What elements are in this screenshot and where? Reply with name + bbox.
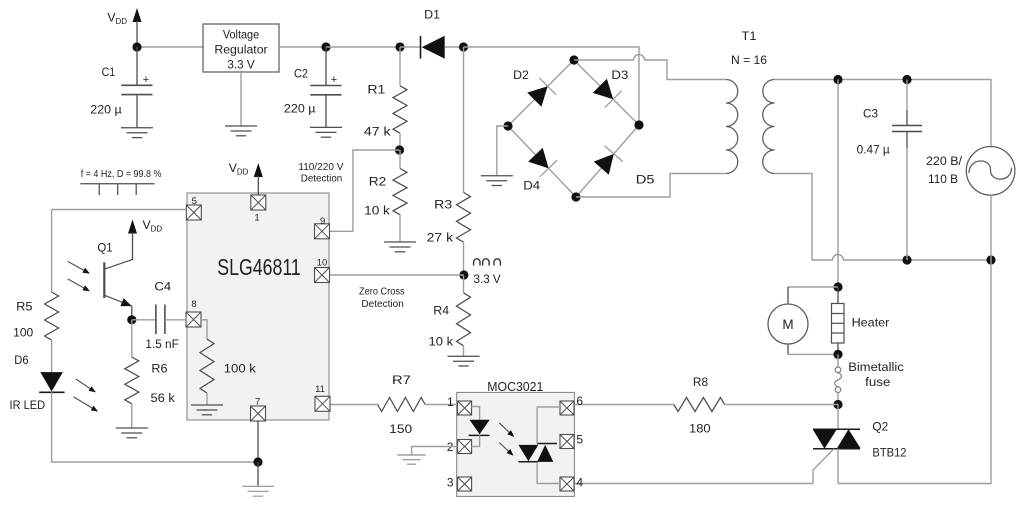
ground (R6) bbox=[116, 428, 148, 438]
svg-text:Heater: Heater bbox=[852, 315, 890, 329]
svg-text:8: 8 bbox=[191, 299, 196, 310]
wire (Q2 MT2 to AC return) bbox=[837, 449, 839, 484]
svg-text:SLG46811: SLG46811 bbox=[217, 254, 301, 280]
svg-text:D6: D6 bbox=[14, 353, 28, 367]
ground (bridge left node) bbox=[481, 176, 513, 186]
pin 1 (MOC) bbox=[447, 395, 472, 415]
wire (pin 5 net) bbox=[52, 209, 186, 211]
svg-text:C1: C1 bbox=[102, 65, 116, 79]
light arrow into Q1 bbox=[68, 261, 90, 273]
light arrow into Q1 bbox=[68, 279, 90, 291]
wire bbox=[837, 405, 839, 430]
svg-text:Voltage: Voltage bbox=[223, 27, 259, 41]
wire (bridge edge left-bottom) bbox=[508, 126, 576, 197]
svg-text:R1: R1 bbox=[367, 83, 385, 97]
node junction gate drive / fuse bbox=[833, 400, 842, 409]
label Zero Cross Detection bbox=[359, 286, 405, 310]
bimetallic fuse bbox=[835, 354, 904, 404]
svg-text:6: 6 bbox=[576, 394, 583, 408]
wire bbox=[165, 319, 186, 321]
svg-text:R7: R7 bbox=[392, 373, 411, 387]
wire bbox=[725, 404, 838, 406]
svg-text:47 k: 47 k bbox=[364, 125, 392, 139]
wire bbox=[326, 46, 400, 48]
svg-text:IR LED: IR LED bbox=[10, 398, 46, 412]
voltage regulator U3 3.3 V bbox=[203, 24, 279, 72]
triac Q2 bbox=[813, 420, 907, 460]
wire (bottom rail with hop) bbox=[812, 255, 991, 261]
wire (gate rail to MOC pin 4) bbox=[574, 483, 813, 485]
label T1 bbox=[742, 29, 757, 43]
svg-text:1: 1 bbox=[254, 213, 259, 224]
transformer T1 secondary winding bbox=[763, 80, 775, 174]
pin 4 (MOC) bbox=[560, 475, 583, 491]
node junction D1 / R3 / bridge bbox=[459, 42, 468, 51]
svg-text:R3: R3 bbox=[434, 198, 452, 212]
wire bbox=[136, 95, 138, 128]
svg-text:fuse: fuse bbox=[865, 375, 890, 389]
transistor Q1 (photo) bbox=[97, 241, 132, 307]
svg-text:100 k: 100 k bbox=[224, 362, 257, 376]
wire bbox=[131, 306, 133, 320]
wire bbox=[463, 47, 465, 192]
ground (internal 100k) bbox=[191, 405, 223, 415]
svg-text:9: 9 bbox=[320, 216, 325, 227]
wire bbox=[131, 404, 133, 428]
svg-text:3.3 V: 3.3 V bbox=[227, 57, 255, 71]
wire (top node to primary, hop) bbox=[574, 55, 726, 80]
svg-text:R8: R8 bbox=[693, 375, 708, 389]
pin 5 (U1) bbox=[186, 196, 201, 220]
wire (LED to MOC pin2) bbox=[472, 435, 480, 446]
svg-text:D5: D5 bbox=[636, 172, 655, 186]
wire (pin 10 zero-cross net) bbox=[330, 274, 464, 276]
heater element bbox=[832, 287, 890, 354]
power symbol VDD (top left) bbox=[107, 8, 141, 47]
svg-text:3: 3 bbox=[447, 476, 454, 490]
wire bbox=[400, 46, 421, 48]
diode D1 bbox=[421, 8, 445, 59]
wire bbox=[136, 47, 138, 85]
wire bbox=[137, 46, 203, 48]
ground (C1) bbox=[121, 128, 153, 138]
wire bbox=[240, 72, 242, 126]
svg-text:D2: D2 bbox=[513, 68, 529, 82]
svg-text:110/220 V: 110/220 V bbox=[298, 162, 343, 173]
wire bbox=[132, 319, 156, 321]
svg-text:BTB12: BTB12 bbox=[872, 446, 906, 460]
resistor R2 bbox=[364, 150, 407, 218]
svg-text:f = 4 Hz, D = 99.8 %: f = 4 Hz, D = 99.8 % bbox=[81, 169, 162, 180]
wire bbox=[399, 47, 401, 86]
wire (photo-triac to MOC pin4) bbox=[537, 462, 560, 484]
label f = 4 Hz, D = 99.8 % bbox=[81, 169, 162, 180]
pin 10 (U1) bbox=[315, 257, 330, 282]
node junction secondary rail / C3 bbox=[902, 75, 911, 84]
node junction secondary rail / motor branch bbox=[833, 75, 842, 84]
resistor R6 bbox=[125, 320, 176, 405]
svg-text:10 k: 10 k bbox=[364, 204, 391, 218]
resistor R1 bbox=[364, 83, 407, 139]
diode D5 bbox=[594, 146, 655, 187]
node bridge top bbox=[569, 55, 578, 64]
wire bbox=[201, 320, 207, 339]
wire bbox=[574, 404, 674, 406]
wire bbox=[279, 46, 326, 48]
wire bbox=[906, 132, 908, 261]
svg-text:27 k: 27 k bbox=[427, 231, 455, 245]
LED light arrow (D6) bbox=[76, 379, 96, 392]
svg-text:Detection: Detection bbox=[361, 299, 404, 310]
diode D2 bbox=[513, 68, 556, 107]
svg-text:1: 1 bbox=[447, 395, 454, 409]
svg-text:110 B: 110 B bbox=[928, 172, 958, 186]
svg-text:10 k: 10 k bbox=[429, 335, 455, 349]
resistor R8 bbox=[674, 375, 725, 436]
node junction Q1 emitter / C4 / R6 bbox=[127, 315, 136, 324]
wire bbox=[775, 80, 992, 148]
node junction R1/R2 (110/220V detect) bbox=[395, 145, 404, 154]
capacitor C4 bbox=[145, 279, 178, 351]
pin 2 (MOC) bbox=[447, 440, 472, 454]
svg-text:M: M bbox=[782, 317, 793, 332]
motor M bbox=[768, 304, 808, 344]
wire bbox=[206, 393, 208, 405]
node bridge left bbox=[503, 121, 512, 130]
svg-text:Detection: Detection bbox=[301, 174, 343, 185]
node junction bottom rail / AC source bbox=[986, 255, 995, 264]
photo-triac inside MOC bbox=[518, 444, 557, 462]
node junction R1 top bbox=[395, 42, 404, 51]
AC source 220V/110V bbox=[926, 147, 1015, 196]
transformer T1 primary winding bbox=[726, 80, 738, 174]
svg-text:1.5 nF: 1.5 nF bbox=[145, 337, 178, 351]
svg-text:R2: R2 bbox=[369, 174, 387, 188]
svg-text:56 k: 56 k bbox=[151, 391, 176, 405]
pulse waveform symbol bbox=[80, 184, 154, 195]
svg-text:4: 4 bbox=[576, 475, 583, 489]
wire bbox=[463, 346, 465, 356]
label 110/220 V Detection bbox=[298, 162, 343, 185]
svg-text:Q2: Q2 bbox=[872, 420, 888, 434]
svg-text:C3: C3 bbox=[863, 106, 878, 120]
LED inside MOC bbox=[469, 420, 490, 436]
node junction motor/heater top bbox=[833, 282, 842, 291]
resistor R7 bbox=[378, 373, 426, 436]
wire bbox=[51, 210, 53, 293]
wire bbox=[775, 174, 813, 261]
svg-text:220 B/: 220 B/ bbox=[926, 154, 963, 168]
power symbol VDD (Q1 collector) bbox=[128, 218, 162, 260]
svg-text:11: 11 bbox=[315, 384, 325, 395]
wire (MOC pin1 to LED) bbox=[472, 407, 480, 420]
svg-text:D3: D3 bbox=[611, 68, 628, 82]
diode D3 bbox=[593, 68, 629, 108]
resistor R5 bbox=[13, 292, 58, 340]
wire (bridge edge bottom-right) bbox=[576, 125, 639, 197]
wire (MOC pin6 to photo-triac) bbox=[537, 407, 560, 444]
svg-text:+: + bbox=[143, 74, 149, 86]
svg-text:D4: D4 bbox=[523, 179, 540, 193]
wire (MOC pin2 to ground) bbox=[412, 447, 458, 456]
node junction heater/motor bottom bbox=[833, 350, 842, 359]
ground (R2) bbox=[384, 242, 416, 252]
svg-text:+: + bbox=[331, 74, 337, 86]
wire bbox=[399, 133, 401, 150]
svg-text:Regulator: Regulator bbox=[214, 42, 267, 56]
power symbol VDD (pin 1) bbox=[229, 161, 263, 196]
ground (C2) bbox=[310, 127, 342, 137]
svg-text:10: 10 bbox=[317, 257, 328, 268]
pin 3 (MOC) bbox=[447, 476, 472, 491]
wire bbox=[838, 260, 991, 484]
wire (Q2 gate) bbox=[813, 449, 834, 484]
svg-text:R5: R5 bbox=[16, 299, 33, 313]
svg-text:3.3 V: 3.3 V bbox=[474, 272, 502, 286]
node junction bottom rail / C3 bbox=[902, 255, 911, 264]
wire bbox=[52, 392, 258, 462]
wire (bridge edge left-top) bbox=[508, 60, 574, 126]
pin 6 (MOC) bbox=[560, 394, 583, 415]
label N = 16 bbox=[731, 53, 767, 67]
wire bbox=[788, 344, 838, 354]
svg-text:C2: C2 bbox=[294, 67, 308, 81]
svg-text:Q1: Q1 bbox=[97, 241, 112, 255]
wire bbox=[906, 80, 908, 126]
diode D6 IR LED bbox=[10, 353, 65, 412]
wire bbox=[497, 126, 508, 176]
node junction C2 bbox=[321, 42, 330, 51]
wire bbox=[990, 195, 992, 260]
wire bbox=[463, 242, 465, 275]
svg-text:150: 150 bbox=[389, 422, 412, 436]
svg-text:180: 180 bbox=[689, 422, 711, 436]
wire bbox=[445, 46, 464, 48]
wire bbox=[788, 287, 838, 304]
capacitor C3 bbox=[857, 106, 922, 156]
svg-text:Bimetallic: Bimetallic bbox=[848, 360, 903, 374]
wire (pin 7 to ground node) bbox=[257, 421, 259, 462]
svg-text:5: 5 bbox=[192, 196, 197, 207]
svg-text:5: 5 bbox=[576, 433, 583, 447]
ground (R4) bbox=[448, 356, 480, 366]
node bridge bottom bbox=[571, 192, 580, 201]
wire bbox=[837, 80, 839, 288]
svg-text:MOC3021: MOC3021 bbox=[487, 380, 543, 394]
ground (regulator) bbox=[225, 126, 257, 136]
svg-text:220 µ: 220 µ bbox=[284, 102, 316, 116]
LED light arrow (D6) bbox=[74, 397, 99, 412]
svg-text:C4: C4 bbox=[154, 279, 171, 293]
pin 8 (U1) bbox=[186, 299, 201, 327]
capacitor C2 bbox=[284, 47, 342, 127]
pin 5 (MOC) bbox=[560, 433, 583, 449]
wire bbox=[425, 404, 457, 406]
LED light arrow bbox=[499, 443, 513, 456]
capacitor C1 bbox=[90, 65, 152, 117]
wire bbox=[399, 215, 401, 242]
pin 9 (U1) bbox=[315, 216, 330, 239]
node junction ground net bbox=[253, 457, 262, 466]
node junction VDD rail / C1 bbox=[132, 42, 141, 51]
pin 11 (U1) bbox=[315, 384, 330, 411]
wire (bridge edge top-right) bbox=[574, 60, 639, 125]
svg-text:R6: R6 bbox=[151, 362, 167, 376]
node bridge right bbox=[634, 120, 643, 129]
svg-text:T1: T1 bbox=[742, 29, 757, 43]
diode D4 bbox=[523, 148, 557, 193]
wire bbox=[330, 404, 378, 406]
ground (main) bbox=[242, 486, 274, 496]
svg-text:0.47 µ: 0.47 µ bbox=[857, 143, 890, 157]
IC U1 SLG46811 body bbox=[187, 193, 329, 420]
wire bbox=[464, 47, 640, 125]
svg-text:N = 16: N = 16 bbox=[731, 53, 767, 67]
pin 1 (U1) bbox=[251, 195, 266, 224]
ground (MOC pin 2) bbox=[398, 455, 426, 464]
svg-text:100: 100 bbox=[13, 326, 33, 340]
wire (pin 9 net) bbox=[330, 150, 400, 231]
wire bbox=[51, 340, 53, 372]
node 3.3 V bbox=[459, 259, 501, 286]
pin 7 (U1) bbox=[251, 396, 266, 421]
LED light arrow bbox=[499, 423, 514, 437]
svg-text:Zero Cross: Zero Cross bbox=[359, 286, 405, 297]
svg-text:220 µ: 220 µ bbox=[90, 103, 122, 117]
resistor R4 bbox=[429, 275, 471, 349]
svg-text:R4: R4 bbox=[433, 304, 449, 318]
optocoupler U2 MOC3021 body bbox=[457, 380, 575, 496]
resistor 100 k (internal) bbox=[200, 339, 257, 393]
wire (primary bottom to bridge bottom) bbox=[576, 174, 726, 198]
svg-text:7: 7 bbox=[255, 396, 260, 407]
wire bbox=[257, 462, 259, 486]
svg-text:D1: D1 bbox=[424, 8, 440, 22]
resistor R3 bbox=[427, 192, 471, 244]
